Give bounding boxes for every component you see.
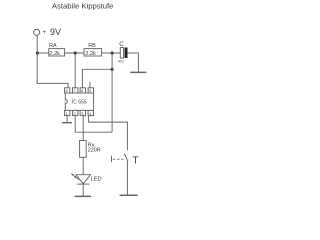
pin 1 box: [65, 110, 70, 115]
wire node A down and over to pin 8: [37, 53, 68, 93]
pin 3 box: [80, 110, 85, 115]
junction node D (pin6 tee): [111, 68, 114, 71]
capacitor C minus plate: [125, 48, 128, 59]
LED triangle: [76, 175, 90, 184]
wire capacitor to ground: [128, 53, 139, 72]
wire pin 6 up and right to node D: [82, 69, 112, 93]
wire switch to ground: [126, 161, 128, 195]
LED arrowhead 1: [71, 173, 73, 176]
pin 8 box: [65, 88, 70, 93]
svg-text:2.2k: 2.2k: [85, 51, 96, 57]
LED cathode bar: [77, 183, 90, 185]
notch pin1 mark: [65, 100, 67, 104]
switch T lever: [124, 153, 127, 161]
pin 5 box: [88, 88, 93, 93]
svg-text:220R: 220R: [88, 148, 101, 154]
resistor RA 2.2k: [49, 49, 65, 56]
LED light arrow 2: [75, 176, 79, 179]
svg-text:RB: RB: [88, 43, 96, 49]
wire pin 7 riser: [74, 53, 76, 93]
wire pin 3 to Rv: [82, 116, 84, 141]
ground (capacitor): [130, 71, 146, 73]
LED light arrow 1: [72, 174, 76, 177]
switch actuator dashes: [113, 158, 125, 160]
junction node B (RA/RB/pin7): [74, 51, 77, 54]
wire pin 5 stub (unconnected): [89, 82, 91, 93]
wire RA to node B: [65, 52, 84, 54]
ground (LED): [75, 195, 92, 197]
pin 6 box: [80, 88, 85, 93]
battery terminal +9V: [34, 29, 40, 35]
pin 7 box: [73, 88, 78, 93]
switch actuator bar: [111, 156, 113, 163]
junction node C (RB/C): [111, 51, 114, 54]
junction node A: [36, 51, 39, 54]
wire RB to capacitor: [102, 52, 121, 54]
wire Rv to LED: [82, 157, 84, 174]
svg-text:+: +: [42, 29, 46, 36]
resistor RB 2.2k: [84, 49, 102, 56]
wire pin 1 stub: [66, 116, 68, 123]
ground (pin 1): [62, 122, 72, 124]
svg-text:T: T: [132, 156, 138, 167]
svg-text:2.2k: 2.2k: [49, 51, 60, 57]
resistor Rv 220R: [80, 141, 87, 158]
capacitor C plus plate: [120, 48, 123, 59]
svg-text:C: C: [119, 41, 124, 48]
svg-text:9V: 9V: [50, 27, 61, 37]
wire pin 2 to trigger line: [75, 116, 112, 133]
IC 555 body: [65, 93, 93, 110]
wire terminal stem down to rail: [36, 35, 38, 53]
svg-text:IC 555: IC 555: [72, 99, 87, 105]
LED arrowhead 2: [74, 176, 76, 179]
pin 2 box: [73, 110, 78, 115]
svg-text:47µ: 47µ: [118, 60, 124, 64]
svg-text:Astabile Kippstufe: Astabile Kippstufe: [52, 2, 114, 11]
svg-text:RA: RA: [49, 43, 57, 49]
svg-text:LED: LED: [91, 176, 102, 182]
wire pin 4 to switch: [89, 116, 128, 151]
wire node C vertical trigger line: [111, 53, 113, 132]
wire LED to ground: [82, 184, 84, 196]
pin 4 box: [88, 110, 93, 115]
wire +9V rail to RA: [37, 52, 49, 54]
ground (switch): [120, 194, 138, 196]
